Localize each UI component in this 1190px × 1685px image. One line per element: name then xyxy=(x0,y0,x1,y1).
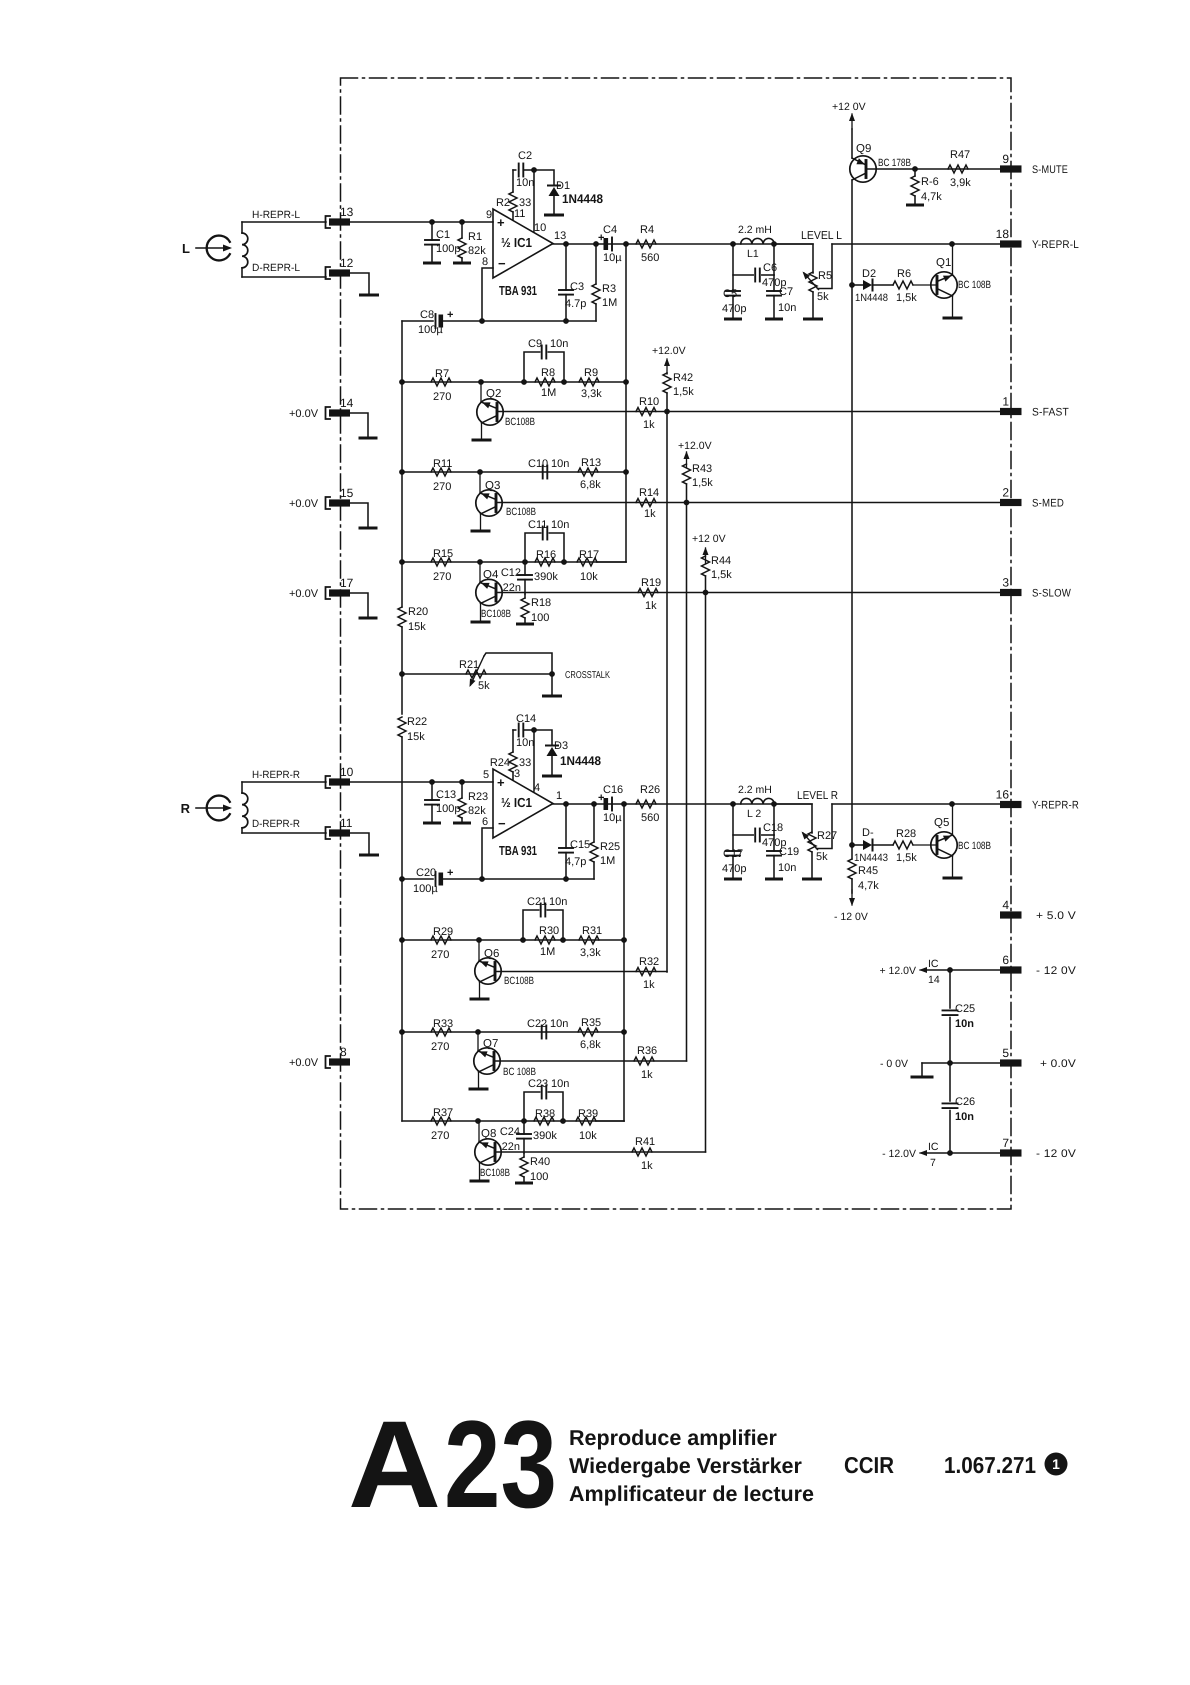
capacitor C21 xyxy=(523,896,567,940)
inductor L2 2.2mH xyxy=(738,784,774,820)
svg-text:C14: C14 xyxy=(516,713,536,725)
svg-text:10n: 10n xyxy=(955,1018,974,1030)
svg-text:16: 16 xyxy=(996,788,1010,802)
svg-text:R4: R4 xyxy=(640,224,654,236)
label +12.0V IC xyxy=(880,965,917,977)
svg-text:+12 0V: +12 0V xyxy=(692,533,726,545)
subtitle line 3 xyxy=(569,1482,814,1506)
connector pin 4 xyxy=(1000,898,1076,922)
svg-text:C20: C20 xyxy=(416,867,436,879)
svg-text:Q7: Q7 xyxy=(483,1038,498,1050)
junction C21 left xyxy=(520,937,526,943)
svg-text:13: 13 xyxy=(554,230,566,242)
resistor R44 xyxy=(702,555,733,593)
svg-text:270: 270 xyxy=(433,481,451,493)
resistor R6 xyxy=(893,268,917,304)
svg-text:1M: 1M xyxy=(602,297,617,309)
svg-text:D2: D2 xyxy=(862,268,876,280)
svg-text:100: 100 xyxy=(531,612,549,624)
capacitor C4 10u xyxy=(598,224,622,264)
svg-text:A: A xyxy=(348,1396,441,1534)
connector pin 6 xyxy=(1000,953,1076,977)
svg-text:11: 11 xyxy=(514,208,525,220)
svg-text:15k: 15k xyxy=(407,731,425,743)
resistor R30 xyxy=(535,925,559,958)
svg-text:R8: R8 xyxy=(541,367,555,379)
svg-text:S-MUTE: S-MUTE xyxy=(1032,164,1068,176)
junction R1 xyxy=(459,219,465,225)
svg-text:C10: C10 xyxy=(528,458,548,470)
svg-text:Wiedergabe Verstärker: Wiedergabe Verstärker xyxy=(569,1454,802,1478)
ground under C7 xyxy=(767,318,782,321)
svg-text:3,9k: 3,9k xyxy=(950,177,971,189)
ground under R5 xyxy=(805,318,822,321)
svg-text:C8: C8 xyxy=(420,309,434,321)
svg-text:5: 5 xyxy=(483,769,489,781)
capacitor C15 xyxy=(559,804,590,879)
svg-text:5: 5 xyxy=(1002,1046,1009,1060)
svg-text:15: 15 xyxy=(340,486,354,500)
svg-text:C4: C4 xyxy=(603,224,617,236)
transistor Q2 BC108B xyxy=(473,382,535,440)
svg-text:Amplificateur de lecture: Amplificateur de lecture xyxy=(569,1482,814,1506)
resistor R43 xyxy=(683,463,714,503)
resistor R2 xyxy=(496,170,531,220)
connector pin 9 S-MUTE xyxy=(1000,152,1068,176)
svg-text:1,5k: 1,5k xyxy=(692,477,713,489)
wire pin13 to op-amp input xyxy=(350,221,493,223)
svg-text:1N4448: 1N4448 xyxy=(855,292,888,304)
capacitor C1 xyxy=(425,222,460,262)
capacitor C14 xyxy=(513,713,536,749)
junction Q2 base xyxy=(478,379,484,385)
svg-text:390k: 390k xyxy=(534,571,558,583)
junction C15 bottom xyxy=(563,876,569,882)
svg-text:C12: C12 xyxy=(501,567,521,579)
junction R9 right xyxy=(623,379,629,385)
wire wiper to pin 16 xyxy=(832,803,1002,805)
svg-text:- 12 0V: - 12 0V xyxy=(834,911,868,923)
potentiometer R27 5k (LEVEL R) xyxy=(802,804,838,878)
capacitor C24 xyxy=(500,1121,531,1153)
svg-text:S-SLOW: S-SLOW xyxy=(1032,588,1071,600)
label TBA 931 (b) xyxy=(499,843,537,858)
svg-text:10n: 10n xyxy=(551,458,569,470)
label LEVEL L xyxy=(801,230,843,242)
svg-text:D-: D- xyxy=(862,827,874,839)
svg-text:R9: R9 xyxy=(584,367,598,379)
label +12.0V (R42) xyxy=(652,345,686,357)
junction bus C20 row xyxy=(399,876,405,882)
junction R3 top xyxy=(593,241,599,247)
svg-text:R39: R39 xyxy=(578,1108,598,1120)
resistor R36 xyxy=(634,1045,657,1081)
svg-text:S-FAST: S-FAST xyxy=(1032,407,1069,419)
wire pin12 to ground xyxy=(350,273,369,294)
wire Q8 collector row xyxy=(495,1151,706,1153)
junction R46 xyxy=(912,166,918,172)
svg-text:5k: 5k xyxy=(817,291,829,303)
svg-text:1k: 1k xyxy=(643,419,655,431)
junction C15 top xyxy=(563,801,569,807)
transistor Q4 BC108B xyxy=(472,562,511,622)
svg-text:Q3: Q3 xyxy=(485,480,500,492)
junction D4 rail xyxy=(849,842,855,848)
junction C1 xyxy=(429,219,435,225)
label IC 14 xyxy=(928,958,940,986)
junction Q5 collector xyxy=(949,801,955,807)
wire H-REPR-R xyxy=(242,781,326,783)
wire fb vertical R xyxy=(623,804,625,1121)
connector pin 16 Y-REPR-R xyxy=(996,788,1079,812)
svg-text:2: 2 xyxy=(1002,486,1009,500)
svg-text:Q4: Q4 xyxy=(483,569,499,581)
wire pin17 ground step xyxy=(350,593,368,617)
svg-text:½ IC1: ½ IC1 xyxy=(501,795,532,810)
junction L1 right xyxy=(771,241,777,247)
svg-text:C9: C9 xyxy=(528,338,542,350)
svg-text:R2: R2 xyxy=(496,197,510,209)
svg-text:C7: C7 xyxy=(779,286,793,298)
svg-text:LEVEL L: LEVEL L xyxy=(801,230,843,242)
ground under C17 xyxy=(726,878,741,881)
connector pin 2 S-MED xyxy=(1000,486,1064,510)
svg-text:C1: C1 xyxy=(436,229,450,241)
svg-text:R38: R38 xyxy=(535,1108,555,1120)
connector pin 1 S-FAST xyxy=(1000,395,1069,419)
svg-text:R42: R42 xyxy=(673,372,693,384)
svg-text:1k: 1k xyxy=(643,979,655,991)
label +12.0V top xyxy=(832,101,866,113)
transistor Q5 BC108B xyxy=(913,804,991,878)
svg-text:100p: 100p xyxy=(436,243,460,255)
connector pin 10 xyxy=(326,765,354,788)
connector pin 17 xyxy=(289,576,354,600)
junction S-FAST xyxy=(664,409,670,415)
wire pin14 ground step xyxy=(350,413,368,437)
wire wiper to pin 18 xyxy=(832,243,1002,245)
ground under R27 xyxy=(804,878,821,881)
svg-text:10n: 10n xyxy=(549,896,567,908)
resistor R10 xyxy=(636,396,659,431)
junction Q1 collector xyxy=(949,241,955,247)
arrow to IC pin14 xyxy=(919,967,927,973)
label LEVEL R xyxy=(797,790,838,802)
revision badge xyxy=(1045,1453,1068,1476)
op-amp U1b (1/2 IC1 TBA931) xyxy=(482,768,562,838)
wire pin5 row xyxy=(922,1062,1002,1064)
svg-text:Y-REPR-R: Y-REPR-R xyxy=(1032,800,1079,812)
svg-text:C5: C5 xyxy=(723,288,737,300)
connector pin 8 xyxy=(289,1045,350,1069)
svg-text:+0.0V: +0.0V xyxy=(289,588,319,600)
svg-text:390k: 390k xyxy=(533,1130,557,1142)
svg-text:C13: C13 xyxy=(436,789,456,801)
resistor R32 xyxy=(636,956,659,991)
transformer winding L xyxy=(242,222,248,277)
svg-text:Q2: Q2 xyxy=(486,388,501,400)
label H-REPR-R xyxy=(252,769,300,781)
supply arrow +12V xyxy=(849,113,855,129)
svg-text:- 12.0V: - 12.0V xyxy=(882,1148,916,1160)
junction fb pin6 xyxy=(479,876,485,882)
svg-text:R24: R24 xyxy=(490,757,510,769)
svg-text:BC108B: BC108B xyxy=(481,608,511,620)
ground under pin 11 xyxy=(361,854,378,857)
resistor R7 xyxy=(431,368,451,403)
svg-text:4,7k: 4,7k xyxy=(858,880,879,892)
wire Q2 collector row xyxy=(497,411,1002,413)
svg-text:1k: 1k xyxy=(641,1069,653,1081)
wire bias bus lower xyxy=(401,737,403,1121)
wire feedback row R xyxy=(482,878,594,880)
svg-text:1M: 1M xyxy=(600,855,615,867)
svg-text:10n: 10n xyxy=(778,862,796,874)
wire D-REPR-R xyxy=(242,832,326,834)
capacitor C2 xyxy=(513,150,534,189)
transistor Q1 BC108B xyxy=(913,244,991,318)
capacitor C10 xyxy=(528,458,569,479)
svg-text:R17: R17 xyxy=(579,549,599,561)
junction Q4 base xyxy=(477,559,483,565)
svg-text:1,5k: 1,5k xyxy=(673,386,694,398)
svg-text:R19: R19 xyxy=(641,577,661,589)
svg-text:R7: R7 xyxy=(435,368,449,380)
wire IC1b output row xyxy=(553,803,812,805)
diode D3 1N4448 xyxy=(546,740,601,775)
junction C3 top xyxy=(563,241,569,247)
capacitor C7 xyxy=(767,275,796,318)
svg-text:R32: R32 xyxy=(639,956,659,968)
wire rail to D2 xyxy=(852,284,863,286)
resistor R33 xyxy=(431,1018,453,1053)
svg-text:R21: R21 xyxy=(459,659,479,671)
svg-text:R47: R47 xyxy=(950,149,970,161)
svg-text:R26: R26 xyxy=(640,784,660,796)
wire Q7 collector row xyxy=(494,1060,687,1062)
ground crosstalk xyxy=(544,695,561,698)
svg-text:1,5k: 1,5k xyxy=(896,292,917,304)
svg-text:10n: 10n xyxy=(551,1078,569,1090)
wire crosstalk to ground xyxy=(551,674,553,695)
svg-text:TBA 931: TBA 931 xyxy=(499,283,537,298)
svg-text:14: 14 xyxy=(340,396,354,410)
svg-text:L1: L1 xyxy=(747,248,759,260)
wire R39 to fb vertical xyxy=(596,1120,624,1122)
label H-REPR-L xyxy=(252,209,300,221)
svg-text:1k: 1k xyxy=(641,1160,653,1172)
transistor Q9 BC178B xyxy=(850,143,911,182)
resistor R18 xyxy=(521,594,551,624)
wire IC1a output row xyxy=(553,243,813,245)
svg-text:3,3k: 3,3k xyxy=(581,388,602,400)
diode D4 1N4448 xyxy=(854,827,888,864)
svg-text:+12.0V: +12.0V xyxy=(678,440,712,452)
svg-text:−: − xyxy=(498,816,506,831)
wire bias bus upper xyxy=(401,321,403,607)
resistor R46 4.7k xyxy=(911,169,942,204)
wire D4 to R28 xyxy=(873,844,893,846)
wire C2 junction to D1 xyxy=(534,170,554,185)
junction Q3 base xyxy=(477,469,483,475)
svg-text:7: 7 xyxy=(930,1157,936,1169)
wire D-REPR-L xyxy=(242,276,326,278)
capacitor C8 100u xyxy=(402,309,482,336)
wire C6 right leg xyxy=(773,244,775,275)
svg-text:R43: R43 xyxy=(692,463,712,475)
label +12.0V (R43) xyxy=(678,440,712,452)
resistor R16 xyxy=(534,549,558,583)
connector pin 5 xyxy=(1000,1046,1076,1070)
connector pin 14 xyxy=(289,396,354,420)
wire S-MED vertical xyxy=(686,503,688,1062)
junction L2 right xyxy=(771,801,777,807)
supply arrow R44 xyxy=(703,547,709,563)
label -12.0V IC xyxy=(882,1148,916,1160)
frame dash-dot border xyxy=(341,78,1012,1209)
svg-text:C22: C22 xyxy=(527,1018,547,1030)
capacitor C9 xyxy=(524,338,568,382)
svg-text:Q1: Q1 xyxy=(936,257,951,269)
svg-text:+: + xyxy=(447,309,453,321)
resistor R35 xyxy=(578,1017,601,1051)
svg-text:10n: 10n xyxy=(955,1111,974,1123)
svg-text:C18: C18 xyxy=(763,822,783,834)
wire feedback row L xyxy=(482,320,596,322)
svg-text:4,7k: 4,7k xyxy=(921,191,942,203)
junction after C4 xyxy=(623,241,629,247)
junction R35 right xyxy=(621,1029,627,1035)
svg-text:+ 12.0V: + 12.0V xyxy=(880,965,917,977)
svg-text:Q9: Q9 xyxy=(856,143,871,155)
wire pin4 xyxy=(533,730,535,791)
svg-text:270: 270 xyxy=(433,571,451,583)
resistor R47 xyxy=(948,149,971,189)
svg-text:6,8k: 6,8k xyxy=(580,1039,601,1051)
svg-text:R35: R35 xyxy=(581,1017,601,1029)
svg-text:10n: 10n xyxy=(778,302,796,314)
junction bus R11 row xyxy=(399,469,405,475)
svg-text:BC108B: BC108B xyxy=(505,416,535,428)
svg-text:1: 1 xyxy=(556,790,562,802)
svg-text:C11: C11 xyxy=(528,519,547,531)
svg-text:10n: 10n xyxy=(551,519,569,531)
svg-text:2.2 mH: 2.2 mH xyxy=(738,224,772,236)
svg-text:R15: R15 xyxy=(433,548,453,560)
junction after C16 xyxy=(621,801,627,807)
svg-text:R13: R13 xyxy=(581,457,601,469)
svg-text:100: 100 xyxy=(530,1171,548,1183)
svg-text:Q6: Q6 xyxy=(484,948,499,960)
svg-text:5k: 5k xyxy=(816,851,828,863)
svg-text:1M: 1M xyxy=(540,946,555,958)
svg-text:C19: C19 xyxy=(779,846,799,858)
resistor R31 xyxy=(579,925,602,959)
transformer winding R xyxy=(242,782,248,833)
svg-text:BC 108B: BC 108B xyxy=(958,840,991,852)
svg-text:C24: C24 xyxy=(500,1126,520,1138)
transistor Q8 BC108B xyxy=(471,1121,510,1181)
capacitor C16 10u xyxy=(598,784,623,824)
svg-text:9: 9 xyxy=(1002,152,1009,166)
resistor R22 xyxy=(398,716,427,743)
svg-text:R31: R31 xyxy=(582,925,602,937)
resistor R42 xyxy=(663,372,694,412)
wire H-REPR-L xyxy=(242,221,326,223)
svg-text:R28: R28 xyxy=(896,828,916,840)
junction Q7 base xyxy=(475,1029,481,1035)
resistor R3 xyxy=(592,244,617,321)
supply arrow R42 xyxy=(664,358,670,374)
wire C14 junction to D3 xyxy=(534,730,552,745)
svg-text:D3: D3 xyxy=(554,740,568,752)
svg-text:C16: C16 xyxy=(603,784,623,796)
svg-text:IC: IC xyxy=(928,1141,939,1153)
svg-text:R16: R16 xyxy=(536,549,556,561)
svg-text:S-MED: S-MED xyxy=(1032,498,1064,510)
capacitor C6 xyxy=(733,244,786,289)
resistor R11 xyxy=(431,458,452,493)
svg-text:14: 14 xyxy=(928,974,940,986)
doc number xyxy=(944,1452,1036,1478)
svg-text:R5: R5 xyxy=(818,270,832,282)
svg-text:17: 17 xyxy=(340,576,354,590)
svg-text:R37: R37 xyxy=(433,1107,453,1119)
svg-text:270: 270 xyxy=(431,1130,449,1142)
svg-text:270: 270 xyxy=(431,1041,449,1053)
svg-text:C15: C15 xyxy=(570,839,590,851)
label -12.0V bottom xyxy=(834,911,868,923)
svg-text:R40: R40 xyxy=(530,1156,550,1168)
transistor Q7 BC108B xyxy=(470,1032,536,1089)
svg-text:33: 33 xyxy=(519,757,531,769)
resistor R15 xyxy=(431,548,453,583)
svg-text:1N4443: 1N4443 xyxy=(854,852,888,864)
svg-text:560: 560 xyxy=(641,812,659,824)
junction L1 left xyxy=(730,241,736,247)
wire inverting input b xyxy=(482,828,493,879)
junction R38 right xyxy=(560,1118,566,1124)
resistor R28 xyxy=(893,828,917,864)
arrow to IC pin7 xyxy=(919,1150,927,1156)
svg-text:470p: 470p xyxy=(722,863,746,875)
resistor R14 xyxy=(636,487,659,520)
svg-text:3: 3 xyxy=(1002,576,1009,590)
label CROSSTALK xyxy=(565,670,610,681)
svg-text:C21: C21 xyxy=(527,896,547,908)
junction C25 top xyxy=(947,967,953,973)
junction S-SLOW xyxy=(703,590,709,596)
resistor R23 xyxy=(458,782,488,822)
junction bus R15 row xyxy=(399,559,405,565)
wire S-FAST vertical xyxy=(666,412,668,973)
junction bus R29 row xyxy=(399,937,405,943)
junction L2 left xyxy=(730,801,736,807)
resistor R39 xyxy=(576,1108,598,1142)
title A 23 xyxy=(348,1396,557,1534)
svg-text:10k: 10k xyxy=(579,1130,597,1142)
svg-text:11: 11 xyxy=(340,816,353,830)
svg-text:+0.0V: +0.0V xyxy=(289,408,319,420)
wire row to R5 xyxy=(774,244,813,273)
svg-text:100µ: 100µ xyxy=(413,883,438,895)
svg-text:D-REPR-L: D-REPR-L xyxy=(252,262,300,274)
supply arrow R43 xyxy=(684,451,690,467)
svg-text:R: R xyxy=(181,801,191,816)
svg-text:1N4448: 1N4448 xyxy=(560,754,601,768)
svg-text:R23: R23 xyxy=(468,791,488,803)
connector pin 13 xyxy=(326,205,354,228)
